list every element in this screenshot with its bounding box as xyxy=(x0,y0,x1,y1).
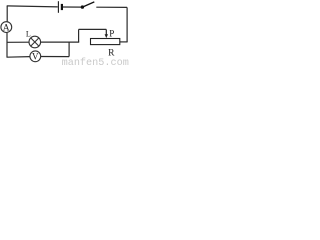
ammeter A1 circle xyxy=(1,22,12,33)
wire: right vertical down to rheostat xyxy=(126,7,128,42)
svg-text:A: A xyxy=(3,24,10,34)
wire: ammeter bottom down to bottom-left corner xyxy=(6,33,8,58)
wire: lamp row left segment (junction at left vertical) xyxy=(7,41,29,43)
wire: lamp right segment to riser xyxy=(41,41,80,43)
wire: voltmeter riser up to lamp row xyxy=(68,42,70,57)
lamp cross stroke 2 xyxy=(31,38,39,46)
rheostat slider arrow P xyxy=(105,29,108,38)
wire: slider feed horizontal to arrow xyxy=(79,28,107,30)
voltmeter V circle xyxy=(30,51,41,62)
lamp L circle xyxy=(29,36,41,48)
wire: voltmeter right to riser xyxy=(41,56,69,58)
switch pivot dot xyxy=(81,5,84,8)
svg-text:V: V xyxy=(32,51,39,61)
wire: bottom-left corner to voltmeter xyxy=(7,56,31,59)
wire: battery to switch xyxy=(63,6,82,8)
battery cell: short thick plate (negative) xyxy=(61,4,63,10)
lamp cross stroke 1 xyxy=(31,38,39,46)
battery cell: long plate (positive) xyxy=(57,1,59,13)
wire: riser up to slider feed xyxy=(78,29,80,42)
rheostat R body rectangle xyxy=(91,39,120,45)
svg-text:P: P xyxy=(109,29,114,39)
wire: top horizontal from left corner to battery xyxy=(7,6,58,7)
svg-text:manfen5.com: manfen5.com xyxy=(62,57,129,66)
wire: switch to top-right corner xyxy=(96,6,127,8)
svg-text:L: L xyxy=(26,29,31,38)
wire: right corner to rheostat right terminal xyxy=(120,41,128,43)
wire: left vertical from top corner down to ammeter xyxy=(6,6,8,22)
switch blade (open) xyxy=(82,2,94,7)
